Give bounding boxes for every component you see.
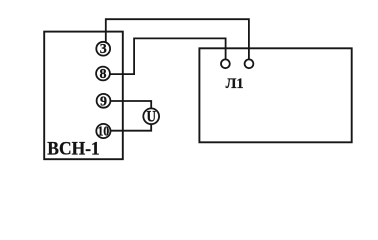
svg-text:3: 3: [100, 42, 107, 57]
svg-text:Л1: Л1: [226, 76, 244, 92]
svg-text:10: 10: [98, 125, 110, 140]
svg-text:8: 8: [100, 67, 107, 82]
svg-text:ВСН-1: ВСН-1: [47, 138, 100, 159]
svg-text:U: U: [146, 109, 156, 126]
svg-text:9: 9: [100, 94, 107, 109]
